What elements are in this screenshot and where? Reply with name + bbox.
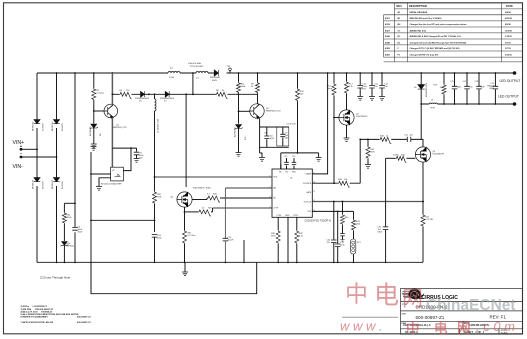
svg-text:6/23/10: 6/23/10 [505, 18, 513, 20]
svg-text:100V: 100V [270, 138, 275, 140]
svg-text:D1 600V: D1 600V [43, 123, 45, 131]
ground below C5 [134, 159, 140, 163]
diode D3 (bridge lower left) [34, 178, 40, 182]
svg-text:600V: 600V [212, 80, 218, 82]
capacitor C17 [466, 73, 468, 104]
U1 bottom pins to resistors [278, 217, 297, 262]
diode D1 [34, 120, 40, 124]
svg-text:RS2006M 600V: RS2006M 600V [426, 82, 428, 97]
svg-text:4360: 4360 [385, 53, 391, 56]
wire bridge left column [36, 73, 38, 262]
wire U2 left pin to x91 [91, 173, 111, 175]
revision history table [384, 3, 523, 62]
svg-text:3) PB-FR4 P/N 600-00697-: 3) PB-FR4 P/N 600-00697-Z1 [21, 308, 54, 311]
U1 top pin stubs [281, 164, 294, 169]
test point TP1 [229, 68, 232, 71]
resistor R3 [119, 92, 132, 98]
svg-text:D2 600V: D2 600V [62, 123, 64, 131]
capacitor C21 [494, 73, 496, 104]
svg-text:220Hz: 220Hz [393, 154, 399, 156]
svg-text:BZX84C15: BZX84C15 [90, 125, 92, 136]
capacitor C25 [340, 234, 345, 236]
svg-text:SOURCE: SOURCE [303, 183, 312, 185]
capacitor C19 [337, 211, 339, 243]
svg-text:SRC: SRC [292, 172, 297, 174]
capacitor C9 in box [277, 127, 289, 146]
capacitor C15 [454, 73, 456, 104]
capacitor C5 [134, 152, 140, 155]
svg-text:BZT-A1 (CS1630) REF: BZT-A1 (CS1630) REF [101, 182, 122, 185]
svg-text:w w w .: w w w . [340, 319, 383, 334]
wire lower line y94.3 [112, 93, 257, 95]
svg-text:INITIAL RELEASE: INITIAL RELEASE [410, 11, 428, 14]
svg-text:9: 9 [313, 172, 314, 174]
op-amp U1 CS1630 controller IC [272, 169, 312, 217]
resistor R43 [386, 157, 396, 159]
svg-text:ChinaECNet: ChinaECNet [426, 297, 516, 314]
svg-text:MURS160: MURS160 [52, 121, 54, 131]
svg-text:REV: REV [397, 4, 403, 8]
wire long column x91 [90, 152, 92, 294]
resistor R26 [153, 191, 157, 204]
svg-text:3/7/11: 3/7/11 [505, 48, 512, 50]
svg-text:D3 600V: D3 600V [43, 181, 45, 189]
svg-text:600-00697-Z1: 600-00697-Z1 [77, 322, 92, 324]
svg-text:600-00697-Z1: 600-00697-Z1 [416, 315, 445, 320]
svg-text:eOTP: eOTP [273, 208, 279, 210]
ground below Q3 [346, 125, 348, 138]
svg-text:6/4/10: 6/4/10 [505, 11, 512, 14]
capacitor C11 [371, 73, 373, 97]
svg-text:0.1uF 16V: 0.1uF 16V [287, 124, 297, 126]
svg-text:U2: U2 [112, 170, 114, 172]
svg-text:Changed D5 R9 C76 duty 47k: Changed D5 R9 C76 duty 47k [410, 53, 440, 56]
resistor R38 [353, 211, 355, 219]
watermark chinese characters [345, 281, 423, 311]
svg-text:FLT/CLK: FLT/CLK [304, 202, 312, 204]
svg-text:VIN+: VIN+ [13, 140, 25, 146]
svg-text:DESCRIPTION: DESCRIPTION [409, 4, 427, 8]
svg-text:47uH: 47uH [169, 77, 175, 79]
wire Q4 drain [420, 104, 422, 139]
resistor R9 [257, 73, 259, 82]
inductor L4 [429, 103, 437, 104]
svg-text:47n: 47n [327, 242, 330, 244]
svg-text:中: 中 [345, 281, 368, 307]
diode D4 (bridge lower right) [53, 178, 59, 182]
wire cap bracket C8 C9 [260, 127, 289, 147]
transistor Q5 [177, 192, 192, 207]
svg-text:CTR1: CTR1 [277, 215, 282, 217]
svg-text:4348: 4348 [385, 41, 391, 44]
inductor L3 [196, 72, 208, 74]
svg-text:GATE: GATE [306, 191, 312, 194]
ground main rail [184, 262, 186, 272]
ground U2 [96, 187, 102, 191]
svg-text:C13: C13 [292, 156, 295, 158]
capacitor C18 [478, 73, 480, 104]
connector LED OUTPUT + [513, 71, 517, 75]
wire Q5 source column [184, 207, 186, 262]
svg-text:100uH 0.65A: 100uH 0.65A [188, 62, 201, 65]
capacitor C16 [224, 188, 226, 262]
wire U1 FLT long gray net [312, 201, 424, 203]
svg-text:11/3/10: 11/3/10 [505, 30, 513, 32]
zener D10 [63, 224, 65, 241]
svg-text:10n: 10n [410, 135, 413, 137]
wire bottom ground rail [37, 261, 423, 263]
wire Q2 emitter to cap bracket [259, 118, 261, 153]
svg-text:电: 电 [374, 282, 399, 310]
svg-text:100nF: 100nF [228, 240, 235, 242]
svg-text:Changed the dim level R7 and v: Changed the dim level R7 and value compe… [410, 23, 468, 26]
watermark gray underline [342, 316, 398, 318]
svg-text:VDD: VDD [273, 177, 278, 179]
svg-text:D4 600V: D4 600V [62, 181, 64, 189]
svg-text:0.15 3W: 0.15 3W [425, 219, 433, 221]
zener D6 [90, 124, 98, 129]
svg-text:4) Altium R_Drill 706/698: 4) Altium R_Drill 706/698-Z1 [21, 310, 54, 313]
resistor R19 [443, 73, 445, 84]
svg-text:P2:SLF7045T: P2:SLF7045T [190, 66, 204, 68]
svg-text:1meg: 1meg [327, 88, 333, 90]
svg-text:U1: U1 [290, 178, 292, 180]
svg-text:FMMT458_C2X: FMMT458_C2X [266, 111, 281, 113]
svg-text:2.k: 2.k [202, 208, 205, 210]
wire U2 right pin up [123, 148, 131, 171]
junction dots on top rail [56, 72, 58, 74]
svg-text:. c 0 m: . c 0 m [476, 319, 515, 334]
resistor R6 [216, 92, 228, 98]
connector LED OUTPUT - [513, 102, 517, 106]
ground above IC [316, 158, 322, 162]
diode D5 [141, 91, 145, 97]
ground top of x91 column [91, 147, 97, 151]
svg-text:FMMT458_C2X: FMMT458_C2X [112, 127, 127, 129]
resistor R18 [379, 137, 391, 143]
svg-text:4340: 4340 [385, 35, 391, 38]
wire C5 branch [112, 148, 136, 151]
wire return loop box below rail [91, 262, 257, 293]
wire C14 row [360, 139, 423, 146]
resistor R45 with ground [367, 139, 369, 146]
svg-text:VIN-: VIN- [13, 164, 24, 170]
resistor R42 [421, 214, 425, 227]
svg-text:PART: PART [402, 312, 408, 315]
wire Q5 drain column [185, 94, 187, 187]
transistor Q3 [346, 94, 348, 110]
resistor R29 [185, 211, 199, 213]
svg-text:中: 中 [406, 320, 420, 336]
resistor R40 column [297, 73, 299, 88]
resistor R24 [63, 203, 65, 212]
svg-text:LED OUTPUT: LED OUTPUT [498, 95, 519, 99]
svg-text:8/9/10: 8/9/10 [505, 24, 512, 26]
wire U2 lower-left pin to ground [99, 178, 111, 187]
svg-text:MURS160: MURS160 [33, 121, 35, 131]
IC U2 shunt regulator [111, 167, 124, 181]
svg-text:BZX84C: BZX84C [67, 246, 75, 248]
watermark www line [340, 319, 515, 337]
svg-text:1/19/11: 1/19/11 [505, 36, 513, 38]
svg-text:8mH: 8mH [431, 107, 436, 109]
capacitor C13 above IC [293, 158, 295, 169]
svg-text:1k: 1k [386, 135, 388, 137]
notes list [21, 305, 92, 324]
wire top rail [37, 72, 515, 74]
svg-text:4321: 4321 [385, 29, 391, 32]
svg-text:ADDED R42 & R43 Changed D5 to: ADDED R42 & R43 Changed D5 to R51 C19 R&… [410, 35, 462, 38]
ground below bracket [259, 158, 265, 162]
resistor R32 [295, 230, 299, 244]
resistor R46 [342, 202, 344, 215]
wire branch to R24 [64, 202, 75, 204]
svg-text:GND: GND [285, 215, 290, 217]
title block text [402, 304, 509, 335]
svg-text:6) REFER TO DATASHEET: 6) REFER TO DATASHEET [21, 316, 49, 319]
wire R44 row [312, 139, 360, 183]
transistor Q2 [257, 93, 259, 103]
svg-text:FQU2N60TF: FQU2N60TF [433, 154, 445, 156]
svg-text:10n: 10n [374, 86, 377, 88]
svg-text:Changed R TO C Q4 R4 Y IRFU420: Changed R TO C Q4 R4 Y IRFU420 and Q5 C2… [410, 47, 461, 50]
svg-text:DATE: DATE [506, 4, 513, 8]
wire R26 to mid rail and C23 [154, 204, 156, 232]
capacitor C23 [152, 235, 158, 238]
wire R7 to zener D11 [238, 93, 240, 123]
svg-text:100V: 100V [78, 232, 83, 234]
svg-text:5) ALL RESISTORS/CAPACITORS 06: 5) ALL RESISTORS/CAPACITORS 0603 UNLESS … [21, 313, 79, 316]
capacitor C14 [407, 137, 411, 142]
ground below D11 [236, 153, 242, 157]
wire clamp net x327.6 [312, 73, 327, 174]
resistor R44 [338, 181, 350, 187]
svg-text:47k: 47k [440, 87, 443, 89]
diode D2 [53, 120, 59, 124]
title block [401, 289, 523, 335]
capacitor C12 above IC [286, 158, 288, 169]
svg-text:C12: C12 [284, 156, 287, 158]
wire bracket above IC [281, 153, 319, 169]
svg-text:630V: 630V [378, 232, 383, 234]
Cirrus Logic logo [402, 289, 424, 300]
thermistor RT1 [353, 231, 355, 239]
transistor Q4 [422, 145, 424, 148]
svg-text:267k: 267k [370, 152, 374, 154]
capacitor C6 [72, 228, 78, 231]
resistor R7 [238, 73, 240, 82]
U1 left pin stubs [155, 177, 273, 208]
resistor R31 [183, 230, 187, 244]
wire mid-left rail [91, 219, 155, 221]
wire stub x244 [243, 240, 245, 262]
svg-text:C20 use Through Hole: C20 use Through Hole [40, 276, 70, 280]
svg-text:11: 11 [313, 191, 315, 193]
svg-text:changed C18 and C21 R46 Throug: changed C18 and C21 R46 Through hole T20… [410, 41, 468, 44]
svg-text:FQU2N60TF: FQU2N60TF [356, 116, 368, 118]
svg-text:0.9 Ohm: 0.9 Ohm [188, 235, 196, 237]
svg-text:3/1/11: 3/1/11 [505, 42, 512, 44]
wire LED+ rail2 with L4 [421, 103, 514, 105]
transistor Q1 [94, 110, 104, 112]
inductor L2 column [154, 94, 156, 99]
svg-text:FQU2N60TF_F085: FQU2N60TF_F085 [193, 188, 212, 190]
svg-text:CS1630-FSZ TSSOP-N: CS1630-FSZ TSSOP-N [305, 220, 332, 223]
svg-text:2.2meg: 2.2meg [97, 93, 105, 95]
svg-text:网: 网 [457, 321, 471, 336]
wire R16 to Q3 gate and down to R44 [333, 96, 335, 183]
svg-text:网: 网 [402, 288, 423, 311]
diode D7 [165, 91, 169, 97]
svg-text:4318: 4318 [385, 23, 391, 26]
svg-text:16V: 16V [139, 158, 143, 160]
svg-text:L2 100uH 1.6A: L2 100uH 1.6A [157, 119, 160, 133]
wire Q1 collector/emitter thick net [111, 73, 113, 105]
resistor R28 [192, 199, 207, 201]
capacitor C8 [266, 127, 268, 147]
resistor R17 [346, 73, 348, 81]
wire VIN- to bridge [21, 156, 57, 158]
wire R2 to zener D6 [93, 101, 95, 124]
U1 pin numbers [270, 172, 316, 212]
zener D11 [235, 125, 243, 130]
svg-text:RS2006M 600V: RS2006M 600V [160, 98, 175, 100]
ground below D6 [91, 144, 97, 148]
capacitor C24 [333, 202, 335, 240]
wire U1 OVP to C19 and R38 [312, 210, 353, 212]
svg-text:ADDED R41 4.02: ADDED R41 4.02 [410, 29, 427, 32]
svg-text:4355: 4355 [385, 47, 391, 50]
svg-text:600-00697-Z1: 600-00697-Z1 [77, 317, 92, 319]
svg-text:BZX84C15: BZX84C15 [235, 126, 237, 137]
svg-text:10k: 10k [344, 179, 347, 181]
capacitor C10 [359, 73, 361, 97]
resistor R16 [333, 73, 335, 83]
svg-text:LED OUTPUT: LED OUTPUT [500, 79, 521, 83]
svg-text:630V: 630V [489, 88, 494, 90]
svg-text:电: 电 [434, 320, 448, 336]
inductor L1 [168, 72, 180, 74]
revision table text [385, 4, 513, 56]
svg-text:RS2006M 600V: RS2006M 600V [135, 98, 150, 100]
svg-text:3/10/11: 3/10/11 [505, 54, 513, 56]
svg-text:7) APPLICATION NOTE: AN-339: 7) APPLICATION NOTE: AN-339 [21, 321, 54, 324]
svg-text:CLAMP: CLAMP [305, 173, 312, 176]
wire Q4 source to R42 [422, 162, 424, 214]
wire VIN+ to bridge [21, 148, 37, 150]
wire bridge right column [56, 73, 58, 262]
svg-text:ADD R40 500 and C6 q/ C14 M16: ADD R40 500 and C6 q/ C14 M16 [410, 17, 443, 20]
svg-text:CTR2: CTR2 [293, 215, 298, 217]
capacitor C12b [381, 73, 383, 97]
svg-text:MURS160: MURS160 [52, 179, 54, 189]
capacitor C22 [385, 158, 387, 262]
diode D9 [420, 73, 422, 85]
svg-text:R46: R46 [345, 217, 348, 219]
diode D8 [214, 70, 218, 76]
resistor R30 [276, 230, 280, 244]
svg-text:MURS160: MURS160 [33, 179, 35, 189]
wire top rail stub x192.9 [192, 73, 194, 94]
resistor R2 [93, 73, 95, 88]
wire column x75 [74, 73, 76, 262]
svg-text:2) R37m LOCATION F1: 2) R37m LOCATION F1 [21, 305, 48, 308]
svg-text:4307: 4307 [385, 17, 391, 20]
svg-text:10n: 10n [469, 87, 472, 89]
svg-text:100n: 100n [457, 87, 461, 89]
